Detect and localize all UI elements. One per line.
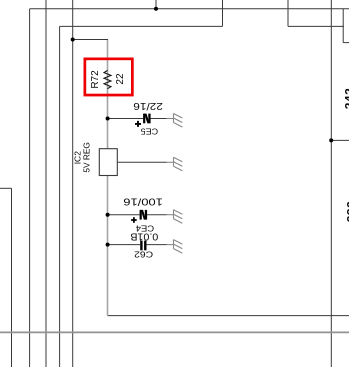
svg-text:5V REG: 5V REG [82,142,92,173]
svg-text:22/16: 22/16 [133,100,163,111]
svg-text:232: 232 [344,201,349,223]
svg-text:R72: R72 [90,70,101,89]
svg-text:22: 22 [115,73,126,85]
svg-text:242: 242 [343,88,349,110]
svg-text:100/16: 100/16 [123,196,163,207]
svg-text:CE5: CE5 [140,127,158,137]
svg-text:CE4: CE4 [135,224,154,234]
svg-text:C62: C62 [134,250,153,260]
